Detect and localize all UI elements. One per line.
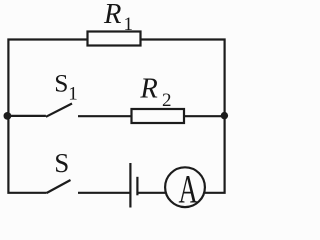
svg-text:R: R	[139, 74, 157, 105]
svg-text:1: 1	[68, 84, 78, 105]
svg-text:R: R	[103, 0, 121, 30]
svg-text:A: A	[178, 168, 198, 212]
svg-text:S: S	[54, 68, 68, 97]
svg-text:2: 2	[162, 90, 172, 111]
svg-text:S: S	[54, 148, 69, 178]
svg-text:1: 1	[124, 14, 134, 35]
